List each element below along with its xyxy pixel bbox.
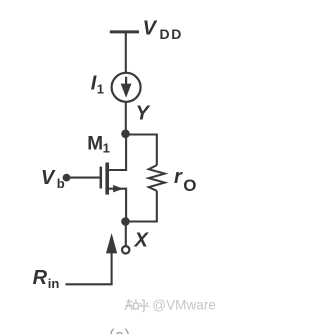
svg-text:(a): (a) bbox=[109, 326, 131, 334]
svg-text:M: M bbox=[87, 133, 103, 154]
wire VDD rail to current source I1 bbox=[125, 32, 127, 73]
Vb terminal dot bbox=[63, 174, 71, 182]
transistor M1 source lead bbox=[107, 189, 126, 222]
svg-text:in: in bbox=[48, 276, 60, 291]
svg-text:DD: DD bbox=[160, 26, 183, 42]
node X junction dot bbox=[121, 217, 130, 226]
svg-text:r: r bbox=[174, 166, 183, 188]
transistor M1 source arrow (points right) bbox=[113, 185, 123, 192]
svg-text:O: O bbox=[183, 176, 196, 195]
wire current source to node Y bbox=[125, 102, 127, 134]
svg-text:V: V bbox=[143, 18, 158, 40]
transistor M1 channel bar bbox=[105, 163, 109, 195]
current source I1 circle bbox=[112, 73, 141, 102]
svg-text:R: R bbox=[33, 267, 48, 289]
resistor rO zigzag bbox=[149, 165, 165, 191]
Rin looking-in arrow head (points up) bbox=[106, 233, 117, 253]
svg-text:1: 1 bbox=[97, 82, 104, 97]
transistor M1 drain lead bbox=[107, 134, 126, 170]
open terminal circle at node X bbox=[122, 246, 129, 253]
svg-text:b: b bbox=[57, 176, 65, 191]
wire node Y to resistor branch (top of loop) bbox=[126, 135, 157, 166]
node Y junction dot bbox=[121, 130, 130, 139]
VDD supply rail symbol bbox=[110, 30, 139, 33]
wire resistor bottom to node X (bottom of loop) bbox=[126, 191, 157, 222]
wire node X to open terminal bbox=[125, 222, 127, 246]
transistor M1 gate lead wire from Vb bbox=[67, 177, 101, 179]
svg-text:V: V bbox=[41, 167, 56, 189]
transistor M1 gate bar bbox=[100, 167, 103, 189]
svg-text:Y: Y bbox=[136, 102, 151, 124]
svg-text:@VMware: @VMware bbox=[152, 297, 216, 312]
svg-text:1: 1 bbox=[103, 141, 110, 156]
watermark 知乎 glyphs (drawn) bbox=[125, 299, 150, 312]
Rin arrow stem wire bbox=[66, 253, 112, 285]
svg-text:X: X bbox=[134, 230, 150, 252]
current source I1 arrow (points down) bbox=[121, 77, 132, 98]
